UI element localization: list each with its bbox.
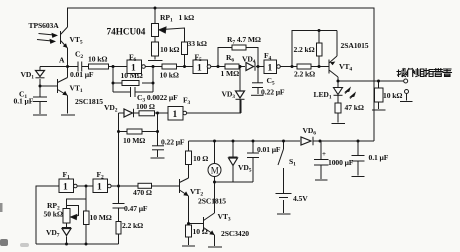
svg-text:0.1 μF: 0.1 μF <box>369 153 389 162</box>
svg-text:TPS603A: TPS603A <box>29 21 60 30</box>
svg-text:0.47 μF: 0.47 μF <box>124 204 148 213</box>
svg-text:2SC1815: 2SC1815 <box>75 97 103 106</box>
svg-text:1: 1 <box>268 64 273 74</box>
svg-text:1000 μF: 1000 μF <box>328 158 354 167</box>
svg-text:10 kΩ: 10 kΩ <box>160 45 179 54</box>
svg-text:A: A <box>59 56 65 65</box>
svg-text:100 Ω: 100 Ω <box>136 102 155 111</box>
svg-text:10 Ω: 10 Ω <box>193 154 208 163</box>
svg-text:2.2 kΩ: 2.2 kΩ <box>294 45 315 54</box>
svg-text:1: 1 <box>63 183 68 193</box>
svg-text:R7 4.7 MΩ: R7 4.7 MΩ <box>227 35 261 46</box>
svg-text:0.1 μF: 0.1 μF <box>14 97 34 106</box>
svg-text:470 Ω: 470 Ω <box>133 188 152 197</box>
svg-text:2SA1015: 2SA1015 <box>341 41 369 50</box>
svg-text:10 MΩ: 10 MΩ <box>121 71 143 80</box>
svg-text:4.5V: 4.5V <box>293 194 308 203</box>
svg-text:2SC3420: 2SC3420 <box>221 229 249 238</box>
svg-text:10 MΩ: 10 MΩ <box>90 213 112 222</box>
svg-text:2SC1815: 2SC1815 <box>198 197 226 206</box>
svg-text:0.22 μF: 0.22 μF <box>261 88 285 97</box>
svg-text:10 kΩ: 10 kΩ <box>88 55 107 64</box>
svg-text:47 kΩ: 47 kΩ <box>345 103 364 112</box>
svg-text:50 kΩ: 50 kΩ <box>44 210 63 219</box>
svg-text:1 kΩ: 1 kΩ <box>179 13 195 22</box>
svg-text:10 kΩ: 10 kΩ <box>383 91 402 100</box>
svg-text:1: 1 <box>197 64 202 74</box>
svg-text:33 kΩ: 33 kΩ <box>188 39 207 48</box>
svg-text:10 MΩ: 10 MΩ <box>123 136 145 145</box>
svg-text:0.01 μF: 0.01 μF <box>70 70 94 79</box>
svg-text:0.01 μF: 0.01 μF <box>257 145 281 154</box>
svg-text:0.22 μF: 0.22 μF <box>161 138 185 147</box>
svg-text:10 kΩ: 10 kΩ <box>160 71 179 80</box>
svg-text:+: + <box>322 150 326 158</box>
svg-text:1: 1 <box>173 110 178 120</box>
svg-text:1: 1 <box>97 183 102 193</box>
svg-text:10 Ω: 10 Ω <box>193 227 208 236</box>
svg-text:2.2 kΩ: 2.2 kΩ <box>122 221 143 230</box>
svg-text:1 MΩ: 1 MΩ <box>221 69 240 78</box>
svg-text:74HCU04: 74HCU04 <box>107 27 146 37</box>
svg-text:2.2 kΩ: 2.2 kΩ <box>294 70 315 79</box>
svg-text:M: M <box>211 166 219 176</box>
